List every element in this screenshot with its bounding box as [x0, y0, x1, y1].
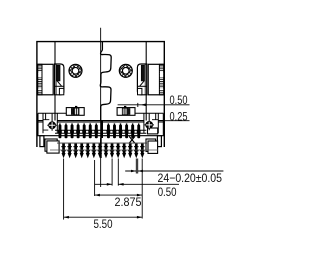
svg-text:2.875: 2.875	[115, 195, 142, 209]
svg-text:0.25: 0.25	[170, 109, 188, 123]
svg-text:0.50: 0.50	[170, 93, 188, 107]
svg-text:0.50: 0.50	[158, 185, 177, 199]
svg-text:24−0.20±0.05: 24−0.20±0.05	[158, 171, 223, 185]
svg-text:5.50: 5.50	[94, 217, 113, 231]
